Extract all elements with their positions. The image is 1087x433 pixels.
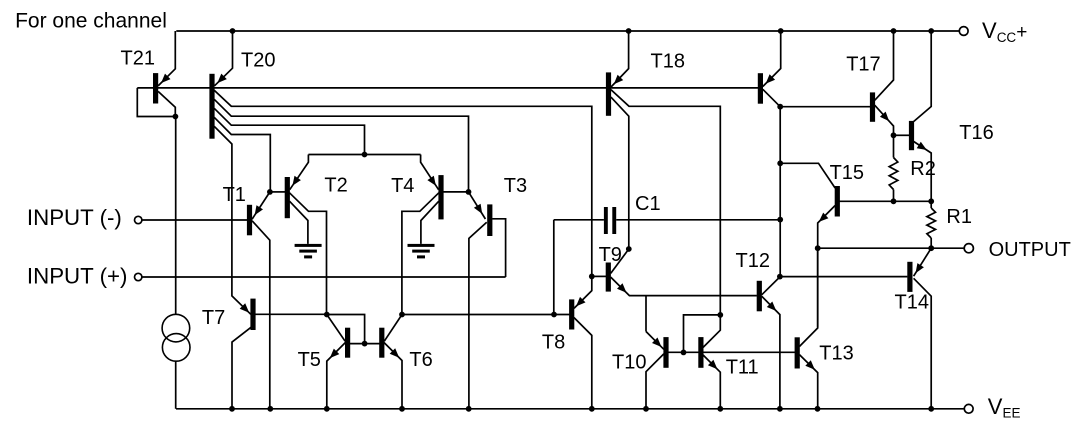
node VEE junction x=591.8	[589, 406, 595, 412]
current source I1	[162, 314, 190, 342]
node T1 emitter junction	[267, 189, 273, 195]
node OUTPUT R1 junction	[928, 245, 934, 251]
node T12 collector junction	[777, 274, 783, 280]
svg-text:T5: T5	[298, 349, 321, 371]
node T5 T6 base junction	[362, 341, 368, 347]
transistor T19 (unlabeled)	[758, 73, 763, 104]
node T4 base junction	[466, 189, 472, 195]
ground symbol right	[408, 244, 435, 247]
node OUTPUT T15/T13 junction	[815, 245, 821, 251]
wire T20 collector f3	[214, 108, 364, 154]
wire VAS vertical	[779, 107, 781, 277]
transistor T18	[606, 72, 611, 115]
transistor T8	[569, 299, 574, 329]
node R1 top junction	[928, 198, 934, 204]
node T15 collector junction	[777, 160, 783, 166]
transistor T16	[909, 121, 914, 150]
svg-text:T9: T9	[599, 244, 622, 266]
wire T2 T4 base line	[308, 154, 420, 156]
svg-text:T15: T15	[830, 162, 864, 184]
transistor T6	[379, 328, 384, 358]
wire T11 base loop	[684, 315, 721, 353]
node T21 collector junction	[173, 114, 179, 120]
svg-text:OUTPUT: OUTPUT	[989, 239, 1071, 261]
node VEE junction x=402	[399, 406, 405, 412]
transistor T13	[795, 337, 800, 368]
capacitor C1	[604, 207, 608, 234]
transistor T2	[285, 177, 290, 218]
node T20 emitter on VCC	[230, 28, 236, 34]
wire T21 base-collector loop	[137, 88, 175, 117]
wire T19 collector to T17 base	[780, 106, 870, 108]
transistor T1	[247, 205, 252, 236]
node T17 collector on VCC	[891, 28, 897, 34]
node VEE junction x=468.7	[466, 406, 472, 412]
input terminal plus	[135, 273, 142, 280]
wire VCC+ rail	[176, 30, 931, 32]
wire top base line	[137, 87, 758, 89]
wire T20 collector f5	[214, 126, 251, 314]
wire T10 emitter feed	[645, 296, 647, 332]
wire C1 left	[554, 219, 604, 221]
wire T20 collector f2	[214, 99, 468, 192]
node T18 emitter on VCC	[626, 28, 632, 34]
svg-text:T4: T4	[391, 175, 414, 197]
svg-text:C1: C1	[635, 193, 661, 215]
node T11 collector junction	[717, 312, 723, 318]
wire INPUT(-) line	[142, 219, 248, 221]
wire C1 right	[616, 219, 780, 221]
node T8 base junction	[551, 312, 557, 318]
wire T20 collector f4	[214, 117, 270, 192]
resistor R2	[893, 135, 895, 157]
node T6 collector junction	[399, 312, 405, 318]
wire mirror base line	[664, 351, 795, 353]
node T19 collector junction	[777, 104, 783, 110]
svg-text:T11: T11	[726, 357, 759, 379]
svg-text:T16: T16	[959, 122, 993, 144]
transistor T20	[209, 74, 214, 139]
transistor T15	[835, 186, 840, 217]
transistor T9	[606, 263, 611, 292]
ground symbol left	[295, 244, 322, 247]
node T9 collector junction	[626, 246, 632, 252]
svg-text:T8: T8	[542, 332, 565, 354]
svg-text:T18: T18	[651, 51, 685, 73]
resistor R1	[930, 201, 932, 208]
node VEE junction x=326.8	[324, 406, 330, 412]
transistor T4	[438, 175, 443, 219]
transistor T3	[487, 204, 492, 236]
node T10 T11 base junction	[681, 350, 687, 356]
svg-text:T1: T1	[223, 184, 246, 206]
svg-text:T14: T14	[895, 292, 929, 314]
wire second stage base line	[402, 314, 570, 316]
svg-text:T10: T10	[612, 352, 646, 374]
svg-text:R2: R2	[910, 158, 936, 180]
power terminal VCC+	[959, 27, 968, 36]
svg-text:T3: T3	[504, 175, 527, 197]
node VEE junction x=720.3	[717, 406, 723, 412]
input terminal minus	[135, 216, 142, 223]
transistor T7	[250, 299, 255, 330]
wire INPUT(+) line	[142, 276, 506, 278]
node rail end VCC	[928, 28, 934, 34]
svg-text:T13: T13	[819, 343, 853, 365]
node T19 emitter on VCC	[778, 28, 784, 34]
svg-text:INPUT (-): INPUT (-)	[27, 205, 122, 230]
svg-text:T2: T2	[324, 175, 347, 197]
svg-text:For one channel: For one channel	[15, 10, 167, 33]
transistor T21	[153, 73, 158, 103]
node VEE junction x=646	[643, 406, 649, 412]
svg-text:T6: T6	[409, 349, 432, 371]
svg-text:T20: T20	[241, 50, 275, 72]
output terminal	[964, 244, 973, 253]
node T9 base junction	[589, 274, 595, 280]
svg-text:T17: T17	[846, 54, 880, 76]
wire left vertical to current source	[175, 117, 177, 315]
transistor T12	[757, 281, 762, 312]
node C1 right junction	[777, 217, 783, 223]
node T17 emitter junction	[891, 132, 897, 138]
node R2 bottom junction	[891, 198, 897, 204]
svg-text:R1: R1	[946, 206, 972, 228]
node T2 T4 base line junction	[362, 152, 368, 158]
svg-text:INPUT (+): INPUT (+)	[27, 263, 128, 288]
svg-text:T7: T7	[202, 307, 225, 329]
transistor T17	[870, 92, 875, 121]
transistor T10	[663, 337, 668, 368]
transistor T11	[698, 337, 703, 368]
node VEE junction x=931.2	[928, 406, 934, 412]
svg-text:T21: T21	[121, 48, 155, 70]
svg-text:T12: T12	[736, 250, 770, 272]
wire OUTPUT line	[818, 247, 965, 249]
node VEE junction x=232	[229, 406, 235, 412]
node T5 collector junction	[324, 312, 330, 318]
wire T2 base stub	[270, 191, 285, 193]
node VEE junction x=817.5	[815, 406, 821, 412]
wire T5 T6 base loop	[327, 315, 365, 344]
transistor T14	[907, 262, 912, 292]
node VEE junction x=270.3	[267, 406, 273, 412]
power terminal VEE	[964, 404, 973, 413]
wire VEE rail	[176, 408, 931, 410]
wire T20 collector f1	[214, 90, 592, 308]
node VEE junction x=779.9	[777, 406, 783, 412]
transistor T5	[345, 328, 350, 358]
